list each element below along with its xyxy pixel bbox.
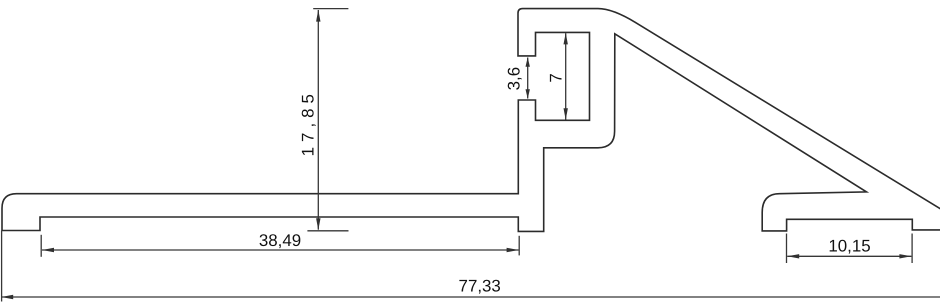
svg-text:10,15: 10,15 bbox=[828, 237, 870, 256]
svg-text:38,49: 38,49 bbox=[259, 231, 301, 250]
svg-text:7: 7 bbox=[546, 73, 565, 82]
svg-text:77,33: 77,33 bbox=[459, 276, 501, 295]
svg-text:3,6: 3,6 bbox=[505, 67, 524, 90]
svg-text:17,85: 17,85 bbox=[298, 89, 317, 156]
